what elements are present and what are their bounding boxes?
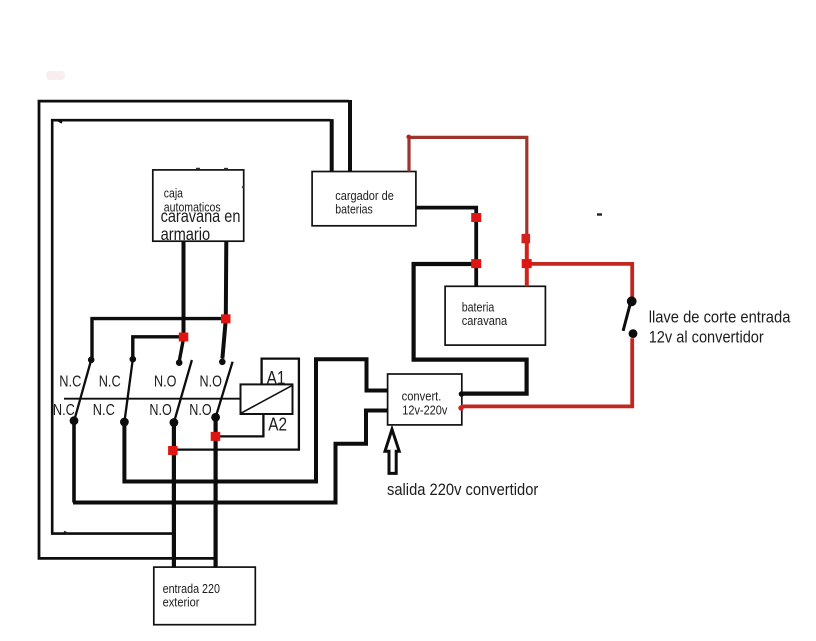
relay coil K1 diagonal — [242, 386, 292, 413]
artifact: faint pink smudge top-left — [46, 71, 65, 80]
artifact: pen nub on caja top edge 2 — [224, 168, 228, 170]
arrow: salida 220v convertidor pointer — [385, 429, 399, 473]
wire: caja right lead down through bus node to contact 4 — [222, 241, 226, 358]
wire: outer loop drop into cargador top — [348, 100, 352, 172]
switch: llave de corte lever — [623, 305, 630, 331]
wire: bus 2 to contact 2 — [133, 337, 184, 357]
node: red square junction battery minus — [471, 259, 481, 268]
relay coil K1 body — [241, 384, 293, 414]
node: red square junction battery plus — [522, 259, 532, 268]
wire: pen tick at inner loop corner — [58, 120, 63, 123]
node: red square junction SW3 wire x A1 lead — [168, 446, 178, 455]
artifact: pen tick on inner loop bottom line — [64, 532, 68, 534]
node: red square junction bus2 x caja left lead — [179, 333, 189, 342]
svg-text:N.C: N.C — [99, 373, 121, 390]
svg-text:caravana en: caravana en — [161, 206, 241, 226]
wire: red 12V from llave switch to convert right — [461, 338, 632, 406]
svg-text:N.O: N.O — [200, 373, 222, 390]
contact SW1 top terminal — [88, 357, 95, 364]
contact SW1 bottom terminal — [70, 416, 79, 425]
svg-text:llave de corte entrada: llave de corte entrada — [649, 309, 791, 327]
svg-text:12v-220v: 12v-220v — [402, 403, 447, 418]
contact SW3 N.O lever (open) — [174, 360, 192, 423]
box: entrada 220 exterior — [154, 567, 256, 625]
node: red square junction cargador output — [471, 213, 481, 222]
contact SW3 bottom terminal — [170, 418, 179, 427]
wire: inner 220V loop from entrada N to cargador — [52, 120, 330, 533]
svg-text:A1: A1 — [267, 367, 286, 388]
wire: red 12V junction down to battery plus — [525, 239, 529, 287]
svg-text:convert.: convert. — [402, 389, 442, 404]
node: red square junction bus1 x caja right lead — [221, 314, 231, 323]
node: convert right red junction dot — [458, 405, 463, 410]
wire: battery minus loop to convert right — [414, 264, 527, 394]
svg-text:A2: A2 — [268, 413, 287, 434]
wire: node to contact 3 — [179, 340, 183, 361]
artifact: pen dot on caja right edge — [242, 187, 244, 189]
switch: llave de corte top terminal — [627, 296, 637, 306]
wire: coil A1 lead up and over to SW3 branch — [173, 359, 299, 450]
node: red square junction on 12V riser — [522, 234, 531, 243]
svg-text:exterior: exterior — [163, 594, 200, 609]
svg-text:caravana: caravana — [462, 313, 508, 328]
wire: inner loop drop into cargador top — [330, 119, 334, 171]
wire: outer 220V loop from entrada L to cargador — [39, 101, 349, 558]
node: red corner dot — [406, 135, 411, 140]
switch: llave de corte bottom terminal — [629, 329, 638, 338]
wire: neutral run from convert left to SW1 — [73, 411, 388, 503]
svg-text:N.O: N.O — [149, 402, 171, 419]
wire: red 12V from cargador top loop down to junction — [409, 137, 527, 238]
box: bateria caravana — [445, 286, 545, 345]
wire: thin common line across contacts to coil — [64, 398, 241, 400]
box: convert. 12v-220v — [388, 374, 462, 425]
wire: caja left lead down to node — [182, 241, 186, 337]
node: convert right black junction dot — [459, 391, 465, 397]
contact SW4 top terminal — [219, 359, 226, 366]
box: caja automaticos caravana en armario — [153, 170, 244, 241]
contact SW2 bottom terminal — [120, 418, 129, 427]
wire: SW3 bottom down to entrada box — [172, 423, 176, 568]
contact SW2 top terminal — [130, 356, 137, 363]
box: cargador de baterias — [312, 172, 416, 226]
svg-text:N.C: N.C — [93, 402, 115, 419]
contact SW4 N.O lever (open) — [216, 362, 233, 418]
wire: SW4 bottom down to entrada box — [214, 417, 218, 567]
contact SW4 bottom terminal — [211, 413, 220, 422]
svg-text:N.O: N.O — [154, 373, 176, 390]
svg-text:baterias: baterias — [335, 202, 373, 217]
svg-text:N.C: N.C — [59, 373, 81, 390]
artifact: small dash right of cargador — [597, 213, 602, 215]
artifact: pen nub on caja top edge — [196, 168, 200, 170]
svg-text:12v al convertidor: 12v al convertidor — [649, 329, 765, 347]
svg-text:N.C: N.C — [53, 402, 75, 419]
svg-text:salida 220v convertidor: salida 220v convertidor — [387, 481, 539, 499]
wire: cargador output to battery minus — [416, 208, 476, 287]
wire: red 12V battery plus to llave switch — [527, 264, 632, 297]
wire: coil A2 lead down to SW4 branch — [216, 414, 264, 436]
wire: bus 1 to contact 1 — [92, 319, 226, 358]
contact SW2 N.C lever — [125, 359, 133, 421]
contact SW1 N.C lever — [75, 360, 92, 420]
wire: phase run from SW2 bottom to convert left — [124, 359, 387, 481]
node: red square junction SW4 wire x A2 lead — [211, 432, 221, 441]
wire: SW1 bottom down to neutral run — [72, 421, 76, 503]
contact SW3 top terminal — [176, 359, 183, 366]
svg-text:N.O: N.O — [189, 402, 211, 419]
